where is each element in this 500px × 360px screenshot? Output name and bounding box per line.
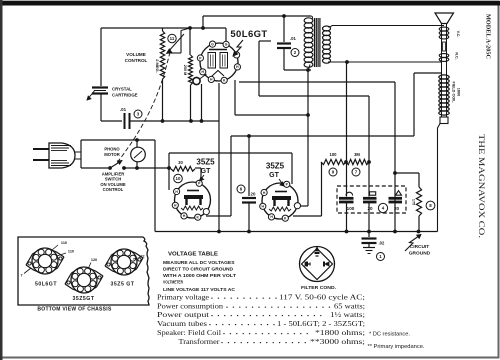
svg-text:Primary voltage: Primary voltage — [157, 294, 209, 302]
svg-text:35Z5: 35Z5 — [266, 162, 285, 171]
svg-text:50L6GT: 50L6GT — [230, 29, 267, 40]
wire: audio bottom wire — [101, 120, 122, 122]
svg-text:DIRECT TO CIRCUIT GROUND: DIRECT TO CIRCUIT GROUND — [163, 267, 233, 272]
svg-text:30: 30 — [178, 160, 183, 165]
resistor 250M — [189, 28, 191, 55]
svg-text:110: 110 — [68, 250, 74, 254]
svg-text:175: 175 — [412, 199, 416, 205]
wire: x369 riser — [368, 96, 370, 162]
wiper arrow — [168, 34, 185, 53]
electrolytic 20 mf — [368, 162, 370, 197]
wire: top-left box top — [101, 27, 226, 29]
tube 35Z5GT #2 — [262, 183, 298, 219]
svg-text:**3000 ohms;: **3000 ohms; — [310, 338, 365, 346]
wire: ground rail — [155, 231, 438, 233]
svg-text:1½ watts;: 1½ watts; — [330, 311, 365, 319]
wire: x308 riser down — [307, 70, 309, 206]
socket 35Z5GT (bottom view, middle) — [65, 268, 80, 285]
svg-text:122: 122 — [138, 255, 144, 259]
wire: rectifier output to resistor 100 — [293, 215, 322, 217]
wire: crystal to bottom wire — [100, 94, 102, 122]
tube 35Z5GT #1 — [175, 182, 211, 218]
resistor 100 — [321, 159, 346, 164]
wire: y136 run — [231, 135, 414, 137]
svg-text:100: 100 — [347, 206, 355, 211]
svg-text:MEASURE ALL DC VOLTAGES: MEASURE ALL DC VOLTAGES — [163, 260, 235, 265]
svg-text:VOLTMETER: VOLTMETER — [163, 280, 184, 285]
grid terminal — [193, 77, 200, 84]
svg-text:N.C.: N.C. — [455, 52, 459, 59]
test point 8 — [426, 201, 435, 210]
wire: B+ top wire — [203, 15, 311, 17]
svg-text:1800: 1800 — [457, 88, 461, 96]
svg-text:CRYSTAL: CRYSTAL — [112, 87, 132, 92]
svg-text:G: G — [225, 43, 228, 47]
svg-text:GROUND: GROUND — [409, 251, 431, 257]
svg-text:11: 11 — [170, 36, 175, 41]
wire: speaker return to rail — [438, 124, 441, 232]
svg-text:Vacuum tubes: Vacuum tubes — [157, 320, 207, 328]
wire: x231 down to tube — [230, 136, 232, 216]
filter condenser symbol — [300, 247, 335, 282]
svg-text:* DC resistance.: * DC resistance. — [369, 332, 410, 338]
svg-text:7: 7 — [20, 274, 22, 278]
volume control potentiometer 2 MEG — [160, 31, 164, 79]
wire: bottom wire cont. — [130, 120, 220, 122]
svg-text:** Primary impedance.: ** Primary impedance. — [368, 344, 425, 350]
svg-text:2 MEG.: 2 MEG. — [155, 59, 160, 73]
dashed linkage volume control to switch — [116, 52, 170, 164]
capacitor .01 (coupling) — [124, 113, 126, 129]
wire: under primary — [284, 69, 311, 71]
svg-text:35Z5: 35Z5 — [196, 158, 215, 167]
svg-text:Power consumption: Power consumption — [157, 303, 223, 311]
wire: jog down to rail — [218, 83, 220, 232]
transformer core — [314, 18, 316, 67]
electrolytic 100 mf — [346, 162, 348, 197]
svg-text:Transformer: Transformer — [179, 338, 221, 346]
svg-text:G: G — [211, 42, 214, 46]
resistor 3M — [346, 159, 369, 164]
svg-text:.02: .02 — [379, 241, 385, 246]
capacitor .02 to ground — [368, 232, 370, 238]
label arrow 50L6GT — [233, 40, 243, 56]
tube 50L6GT — [200, 43, 238, 81]
transformer T1 secondary — [323, 26, 331, 31]
test point 7 — [352, 168, 360, 176]
wire: plug box — [80, 140, 82, 168]
chassis outline — [18, 237, 149, 305]
svg-text:35Z5 GT: 35Z5 GT — [111, 282, 135, 288]
svg-text:110: 110 — [61, 241, 67, 245]
svg-text:CARTRIDGE: CARTRIDGE — [112, 93, 138, 98]
svg-text:120: 120 — [91, 258, 97, 262]
svg-text:50L6GT: 50L6GT — [35, 282, 57, 288]
test point 3 — [134, 110, 142, 118]
svg-text:250 M: 250 M — [183, 65, 187, 76]
svg-text:MODEL A-205C: MODEL A-205C — [485, 14, 492, 59]
field coil 1800 — [439, 75, 449, 79]
svg-text:BOTTOM VIEW OF CHASSIS: BOTTOM VIEW OF CHASSIS — [37, 307, 112, 313]
resistor 30 — [137, 167, 171, 169]
svg-text:PHONO: PHONO — [104, 147, 120, 152]
speaker rod — [441, 24, 443, 118]
socket 35Z5GT (bottom view, right) — [105, 250, 120, 267]
hum neutralizing coil — [439, 54, 449, 58]
filter cap dashed box — [337, 186, 406, 213]
svg-text:VOLUME: VOLUME — [126, 52, 146, 57]
former — [443, 42, 446, 51]
svg-text:FILTER COND.: FILTER COND. — [301, 285, 336, 290]
wire: to resistor 175 — [395, 172, 419, 174]
capacitor .01 (plate bypass) — [283, 16, 285, 42]
test point 10 — [174, 174, 183, 183]
switch on volume control — [108, 166, 112, 170]
svg-text:117 V. 50-60 cycle AC;: 117 V. 50-60 cycle AC; — [279, 294, 365, 302]
svg-text:Power output: Power output — [157, 311, 209, 319]
wire: x249 to 20mf cap — [248, 136, 250, 196]
wire: field coil top — [414, 72, 442, 74]
wire: x347 riser — [346, 62, 348, 162]
test point 4 — [378, 203, 387, 212]
electrolytic 20 mf (2) — [396, 191, 402, 196]
test point 6 — [237, 185, 245, 193]
svg-text:CIRCUIT: CIRCUIT — [410, 244, 430, 250]
svg-text:VOLTAGE TABLE: VOLTAGE TABLE — [168, 252, 218, 258]
svg-text:FIELD COIL: FIELD COIL — [452, 81, 456, 103]
test point 11 — [168, 34, 176, 42]
svg-text:20: 20 — [367, 206, 373, 211]
socket 50L6GT (bottom view) — [26, 249, 41, 266]
wire: line lead down to rail — [154, 140, 156, 232]
svg-text:GT: GT — [269, 172, 279, 179]
transformer T1 primary — [304, 18, 313, 23]
wire: y96 run — [259, 95, 369, 97]
svg-text:20: 20 — [251, 192, 256, 197]
svg-text:65 watts;: 65 watts; — [334, 303, 365, 311]
svg-text:MOTOR: MOTOR — [104, 152, 120, 157]
wire: cathode down — [201, 84, 203, 121]
svg-text:35Z5GT: 35Z5GT — [72, 296, 94, 302]
wire: heater box top — [169, 152, 292, 154]
svg-text:10: 10 — [176, 176, 181, 181]
wire: screen to tube top pin — [225, 28, 227, 45]
svg-text:WITH A 1000 OHM PER VOLT: WITH A 1000 OHM PER VOLT — [163, 273, 236, 278]
svg-text:GT: GT — [201, 168, 211, 175]
svg-text:LINE VOLTAGE 117 VOLTS AC: LINE VOLTAGE 117 VOLTS AC — [163, 287, 235, 292]
voice coil — [439, 27, 449, 31]
svg-text:3M: 3M — [354, 152, 360, 157]
wire: x414 riser — [413, 73, 415, 136]
svg-text:Speaker: Field Coil: Speaker: Field Coil — [157, 329, 221, 337]
wire: secondary bottom to speaker — [328, 61, 442, 63]
wire: y115 run — [235, 114, 308, 116]
wire: secondary top to voice coil — [328, 26, 444, 27]
svg-text:.01: .01 — [290, 36, 296, 41]
AC plug — [33, 148, 49, 150]
svg-text:*1800 ohms;: *1800 ohms; — [315, 329, 365, 337]
wire: top-left box left — [100, 28, 102, 86]
label arrow — [200, 175, 205, 181]
wire: x395 from plate run to rail — [394, 82, 396, 232]
crystal cartridge — [92, 86, 108, 88]
svg-text:1 - 50L6GT; 2 - 35Z5GT;: 1 - 50L6GT; 2 - 35Z5GT; — [277, 320, 365, 328]
resistor 175 — [416, 187, 421, 216]
phono motor — [136, 140, 138, 148]
test point 9 — [329, 168, 337, 176]
test point 1 — [377, 253, 385, 261]
wire: grid cap feed — [202, 16, 204, 28]
capacitor 20 (cathode) — [242, 197, 256, 199]
speaker terminal — [440, 117, 448, 124]
svg-text:100: 100 — [330, 152, 338, 157]
svg-text:.01: .01 — [120, 107, 127, 112]
svg-text:CONTROL: CONTROL — [125, 58, 148, 63]
chassis ground symbol — [363, 247, 375, 249]
wire: plate run y82 — [239, 81, 395, 83]
speaker cone — [435, 13, 454, 24]
svg-text:V.C.: V.C. — [456, 31, 460, 38]
wire: tube pin to y115 — [234, 80, 236, 115]
svg-text:CONTROL: CONTROL — [103, 187, 124, 192]
test point 2 — [291, 49, 299, 57]
svg-text:THE MAGNAVOX CO.: THE MAGNAVOX CO. — [477, 134, 486, 238]
wire: screen bypass riser — [258, 41, 260, 96]
